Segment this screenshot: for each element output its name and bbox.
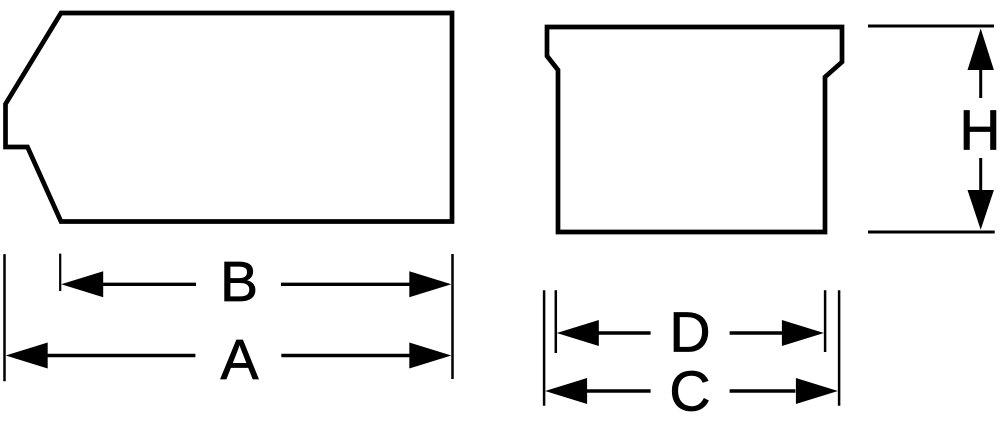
svg-text:A: A	[220, 328, 258, 392]
svg-text:H: H	[959, 98, 1000, 162]
svg-text:B: B	[220, 250, 258, 314]
svg-text:D: D	[669, 301, 710, 365]
svg-text:C: C	[669, 359, 710, 423]
